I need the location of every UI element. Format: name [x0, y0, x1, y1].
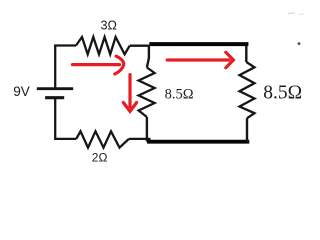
- wire: top wire from 3-ohm to middle junction: [130, 45, 149, 47]
- wire: left rail top (battery + to top-left corner): [54, 46, 56, 88]
- wire: right branch bottom lead: [246, 118, 248, 141]
- battery V1 short plate (-): [45, 96, 64, 99]
- resistor R1 3ohm (horizontal zigzag, top): [76, 37, 130, 54]
- svg-text:8.5Ω: 8.5Ω: [165, 87, 194, 103]
- svg-text:8.5Ω: 8.5Ω: [263, 82, 302, 103]
- stray mark (faint dot near right edge): [298, 42, 301, 45]
- wire: thick top bus (junction to right branch): [149, 42, 248, 46]
- wire: bottom wire from 2-ohm to middle junction: [129, 138, 151, 140]
- wire: left rail bottom (battery - to bottom-left corner): [54, 98, 56, 139]
- wire: middle branch bottom lead: [146, 117, 148, 142]
- wire: top wire from corner to 3-ohm resistor: [54, 44, 76, 46]
- svg-text:9V: 9V: [13, 84, 30, 99]
- battery V1 long plate (+): [37, 87, 73, 90]
- stray mark (faint smudge top right): [288, 12, 295, 15]
- current arrow I1 (red, right, under 3-ohm): [73, 56, 124, 74]
- resistor R2 8.5ohm (vertical zigzag, middle): [139, 68, 155, 118]
- resistor R3 2ohm (horizontal zigzag, bottom): [76, 131, 129, 147]
- svg-text:3Ω: 3Ω: [101, 18, 117, 32]
- wire: bottom wire from corner to 2-ohm resistor: [54, 138, 76, 140]
- wire: middle branch top lead (junction down to 8.5-ohm): [147, 45, 149, 68]
- current arrow I2 (red, down, beside middle 8.5-ohm): [123, 75, 136, 112]
- current arrow I3 (red, right, inside thick loop): [167, 52, 233, 67]
- resistor R4 8.5ohm (vertical zigzag, right): [240, 62, 255, 118]
- wire: thick bottom bus (junction to right branch): [147, 140, 249, 144]
- wire: right branch top lead: [245, 45, 247, 62]
- svg-text:2Ω: 2Ω: [92, 151, 108, 165]
